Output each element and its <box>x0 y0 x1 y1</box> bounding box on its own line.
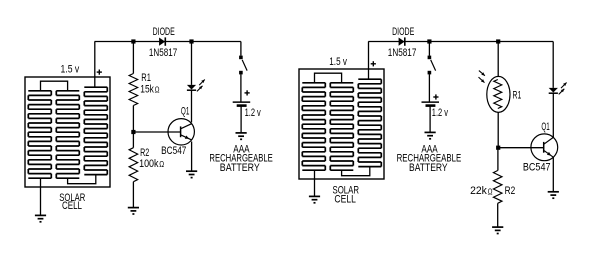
photoresistor R1 zigzag element <box>494 80 502 109</box>
transistor Q1 BC547 (NPN) <box>168 119 194 145</box>
wire: emitter to ground <box>191 142 193 172</box>
svg-text:Ω: Ω <box>159 160 164 169</box>
solar cell grid column 3 <box>84 87 107 174</box>
svg-text:Ω: Ω <box>488 187 493 196</box>
svg-text:CELL: CELL <box>62 200 82 212</box>
wire: solar cell negative lead <box>40 178 42 215</box>
node: base junction R1/R2 (right) <box>496 146 500 150</box>
wire: solar cell negative lead (right) <box>314 170 316 196</box>
solar cell + terminal mark <box>97 70 102 75</box>
switch blade (open) <box>242 60 247 71</box>
svg-text:1N5817: 1N5817 <box>388 47 417 59</box>
wire: left top rail <box>95 41 241 43</box>
battery negative plate <box>426 104 436 107</box>
wire: photoresistor top lead <box>497 42 499 77</box>
solar cell grid column 2 <box>56 91 79 178</box>
solar cell panel outline <box>299 69 384 179</box>
LED D2 indicator <box>187 85 196 90</box>
svg-text:Q1: Q1 <box>541 121 549 133</box>
ground under solar cell (right) <box>309 196 320 202</box>
solar cell + terminal mark (right) <box>371 61 376 66</box>
LED indicator (right) <box>549 88 558 93</box>
svg-text:R1: R1 <box>141 72 151 84</box>
svg-text:Q1: Q1 <box>181 105 190 117</box>
svg-text:1.5 v: 1.5 v <box>61 63 80 75</box>
ground under R2 <box>128 208 139 214</box>
ground under R2 (right) <box>492 227 503 233</box>
wire: switch to battery (right) <box>428 74 430 102</box>
svg-text:CELL: CELL <box>334 194 356 206</box>
svg-text:1N5817: 1N5817 <box>149 47 177 59</box>
switch bottom terminal <box>239 71 243 75</box>
ground under battery <box>236 133 247 139</box>
svg-text:100k: 100k <box>139 158 159 170</box>
diode D1 symbol (1N5817) <box>159 38 165 46</box>
wire: rail to switch <box>240 42 242 56</box>
solar cell bottom bridge (col2 to col3) <box>342 167 370 176</box>
resistor R2 <box>129 148 138 182</box>
ground under solar cell <box>35 215 46 221</box>
wire: base node to transistor (right) <box>498 147 544 149</box>
node: rail junction to LED <box>189 39 193 43</box>
photoresistor R1 (LDR) envelope <box>487 76 510 112</box>
svg-text:DIODE: DIODE <box>153 26 175 38</box>
wire: right top rail <box>368 41 553 43</box>
solar cell bottom bridge (col2 to col3) <box>68 175 96 184</box>
svg-text:BATTERY: BATTERY <box>409 162 448 174</box>
battery positive plate <box>233 101 251 103</box>
switch bottom terminal <box>428 71 432 75</box>
svg-text:22k: 22k <box>470 185 487 197</box>
svg-text:1.2 v: 1.2 v <box>432 107 449 119</box>
svg-text:1.2 v: 1.2 v <box>245 107 262 119</box>
diode D1 symbol (1N5817) <box>399 38 405 46</box>
svg-text:R2: R2 <box>505 185 516 197</box>
wire: LED cathode to collector (right) <box>552 93 554 137</box>
switch top terminal <box>428 56 432 60</box>
svg-text:Ω: Ω <box>155 86 160 95</box>
svg-text:BATTERY: BATTERY <box>220 162 261 174</box>
svg-text:BC547: BC547 <box>161 145 186 157</box>
wire: battery to ground <box>240 107 242 133</box>
svg-text:15k: 15k <box>140 84 154 96</box>
battery negative plate <box>237 104 247 107</box>
wire: base node to transistor <box>133 131 180 133</box>
wire: R2 bottom lead (right) <box>497 203 499 227</box>
resistor R1 <box>129 74 138 106</box>
solar cell grid column 3 <box>358 79 381 166</box>
wire: switch to battery <box>240 74 242 102</box>
solar cell top bridge (col1 to col2) <box>315 73 342 83</box>
solar cell grid column 1 <box>28 91 51 178</box>
battery + polarity mark <box>433 94 438 99</box>
wire: LED anode from rail <box>191 42 193 85</box>
svg-text:1.5 v: 1.5 v <box>329 56 347 68</box>
ground under battery (right) <box>425 132 436 138</box>
wire: left solar cell positive lead <box>94 42 96 88</box>
wire: R2 bottom lead <box>132 182 134 208</box>
wire: R1 top lead <box>132 42 134 74</box>
node: base junction R1/R2 <box>131 130 135 134</box>
node: rail junction to switch/battery <box>427 39 431 43</box>
wire: rail to switch (right) <box>428 42 430 56</box>
wire: R1 to base node <box>132 106 134 148</box>
battery + polarity mark <box>245 90 250 95</box>
light arrow 1 into R1 <box>479 71 485 76</box>
wire: right solar cell positive lead <box>368 42 370 80</box>
wire: photoresistor to base node <box>497 112 499 147</box>
solar cell grid column 2 <box>330 83 353 170</box>
switch blade (open) <box>431 60 436 71</box>
transistor Q1 BC547 (right) <box>531 134 558 161</box>
svg-text:R1: R1 <box>513 89 522 101</box>
ground under transistor (right) <box>548 192 559 198</box>
wire: LED cathode to collector <box>191 90 193 122</box>
wire: emitter to ground (right) <box>552 157 554 192</box>
switch top terminal <box>239 56 243 60</box>
light arrow 2 into R1 <box>479 77 485 83</box>
ground under transistor Q1 <box>186 171 197 177</box>
svg-text:BC547: BC547 <box>523 162 551 174</box>
node: rail junction to photoresistor R1 <box>496 39 500 43</box>
svg-text:DIODE: DIODE <box>392 26 414 38</box>
wire: node to R2 (right) <box>497 148 499 171</box>
node: rail junction to R1 <box>131 39 135 43</box>
solar cell top bridge (col1 to col2) <box>41 81 68 91</box>
solar cell panel outline <box>25 77 110 187</box>
resistor R2 (right) <box>493 171 502 204</box>
wire: battery to ground (right) <box>429 106 431 132</box>
wire: rail corner to LED (right) <box>552 42 554 88</box>
battery positive plate <box>422 101 440 103</box>
solar cell grid column 1 <box>302 83 325 170</box>
